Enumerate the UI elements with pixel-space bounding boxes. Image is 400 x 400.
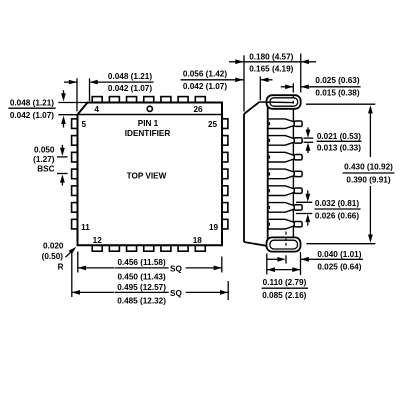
svg-text:5: 5	[82, 120, 87, 129]
svg-text:0.042 (1.07): 0.042 (1.07)	[10, 111, 54, 120]
svg-text:0.026 (0.66): 0.026 (0.66)	[315, 211, 359, 220]
svg-text:0.430 (10.92): 0.430 (10.92)	[344, 163, 393, 172]
svg-text:0.180 (4.57): 0.180 (4.57)	[249, 52, 293, 61]
svg-text:0.456 (11.58): 0.456 (11.58)	[117, 258, 166, 267]
svg-text:0.013 (0.33): 0.013 (0.33)	[317, 144, 361, 153]
svg-text:0.165 (4.19): 0.165 (4.19)	[249, 64, 293, 73]
svg-text:0.048 (1.21): 0.048 (1.21)	[108, 72, 152, 81]
svg-text:18: 18	[193, 236, 203, 245]
svg-text:TOP VIEW: TOP VIEW	[127, 172, 167, 181]
svg-text:0.048 (1.21): 0.048 (1.21)	[10, 99, 54, 108]
svg-text:0.050: 0.050	[34, 145, 55, 154]
svg-text:0.056 (1.42): 0.056 (1.42)	[183, 70, 227, 79]
svg-text:(1.27): (1.27)	[33, 155, 55, 164]
svg-text:0.495 (12.57): 0.495 (12.57)	[117, 283, 166, 292]
svg-text:0.085 (2.16): 0.085 (2.16)	[262, 291, 306, 300]
svg-text:19: 19	[209, 223, 219, 232]
svg-text:0.485 (12.32): 0.485 (12.32)	[117, 297, 166, 306]
svg-text:0.110 (2.79): 0.110 (2.79)	[263, 278, 307, 287]
svg-text:0.015 (0.38): 0.015 (0.38)	[315, 88, 359, 97]
svg-text:4: 4	[94, 105, 99, 114]
svg-text:0.450 (11.43): 0.450 (11.43)	[117, 272, 166, 281]
svg-text:0.020: 0.020	[43, 241, 64, 250]
svg-text:0.042 (1.07): 0.042 (1.07)	[183, 82, 227, 91]
svg-text:0.021 (0.53): 0.021 (0.53)	[317, 132, 361, 141]
svg-text:R: R	[58, 263, 64, 272]
svg-text:SQ: SQ	[170, 265, 182, 274]
svg-text:0.042 (1.07): 0.042 (1.07)	[108, 84, 152, 93]
svg-text:BSC: BSC	[37, 165, 54, 174]
svg-text:25: 25	[208, 120, 218, 129]
svg-text:26: 26	[193, 105, 203, 114]
svg-text:0.032 (0.81): 0.032 (0.81)	[315, 199, 359, 208]
svg-text:(0.50): (0.50)	[42, 252, 64, 261]
svg-text:0.040 (1.01): 0.040 (1.01)	[317, 250, 361, 259]
svg-text:PIN 1: PIN 1	[138, 119, 159, 128]
svg-text:0.390 (9.91): 0.390 (9.91)	[346, 175, 390, 184]
svg-text:12: 12	[93, 236, 103, 245]
svg-text:0.025 (0.63): 0.025 (0.63)	[315, 76, 359, 85]
svg-text:IDENTIFIER: IDENTIFIER	[125, 129, 171, 138]
svg-text:SQ: SQ	[170, 289, 182, 298]
svg-text:11: 11	[81, 223, 90, 232]
svg-text:0.025 (0.64): 0.025 (0.64)	[317, 262, 361, 271]
